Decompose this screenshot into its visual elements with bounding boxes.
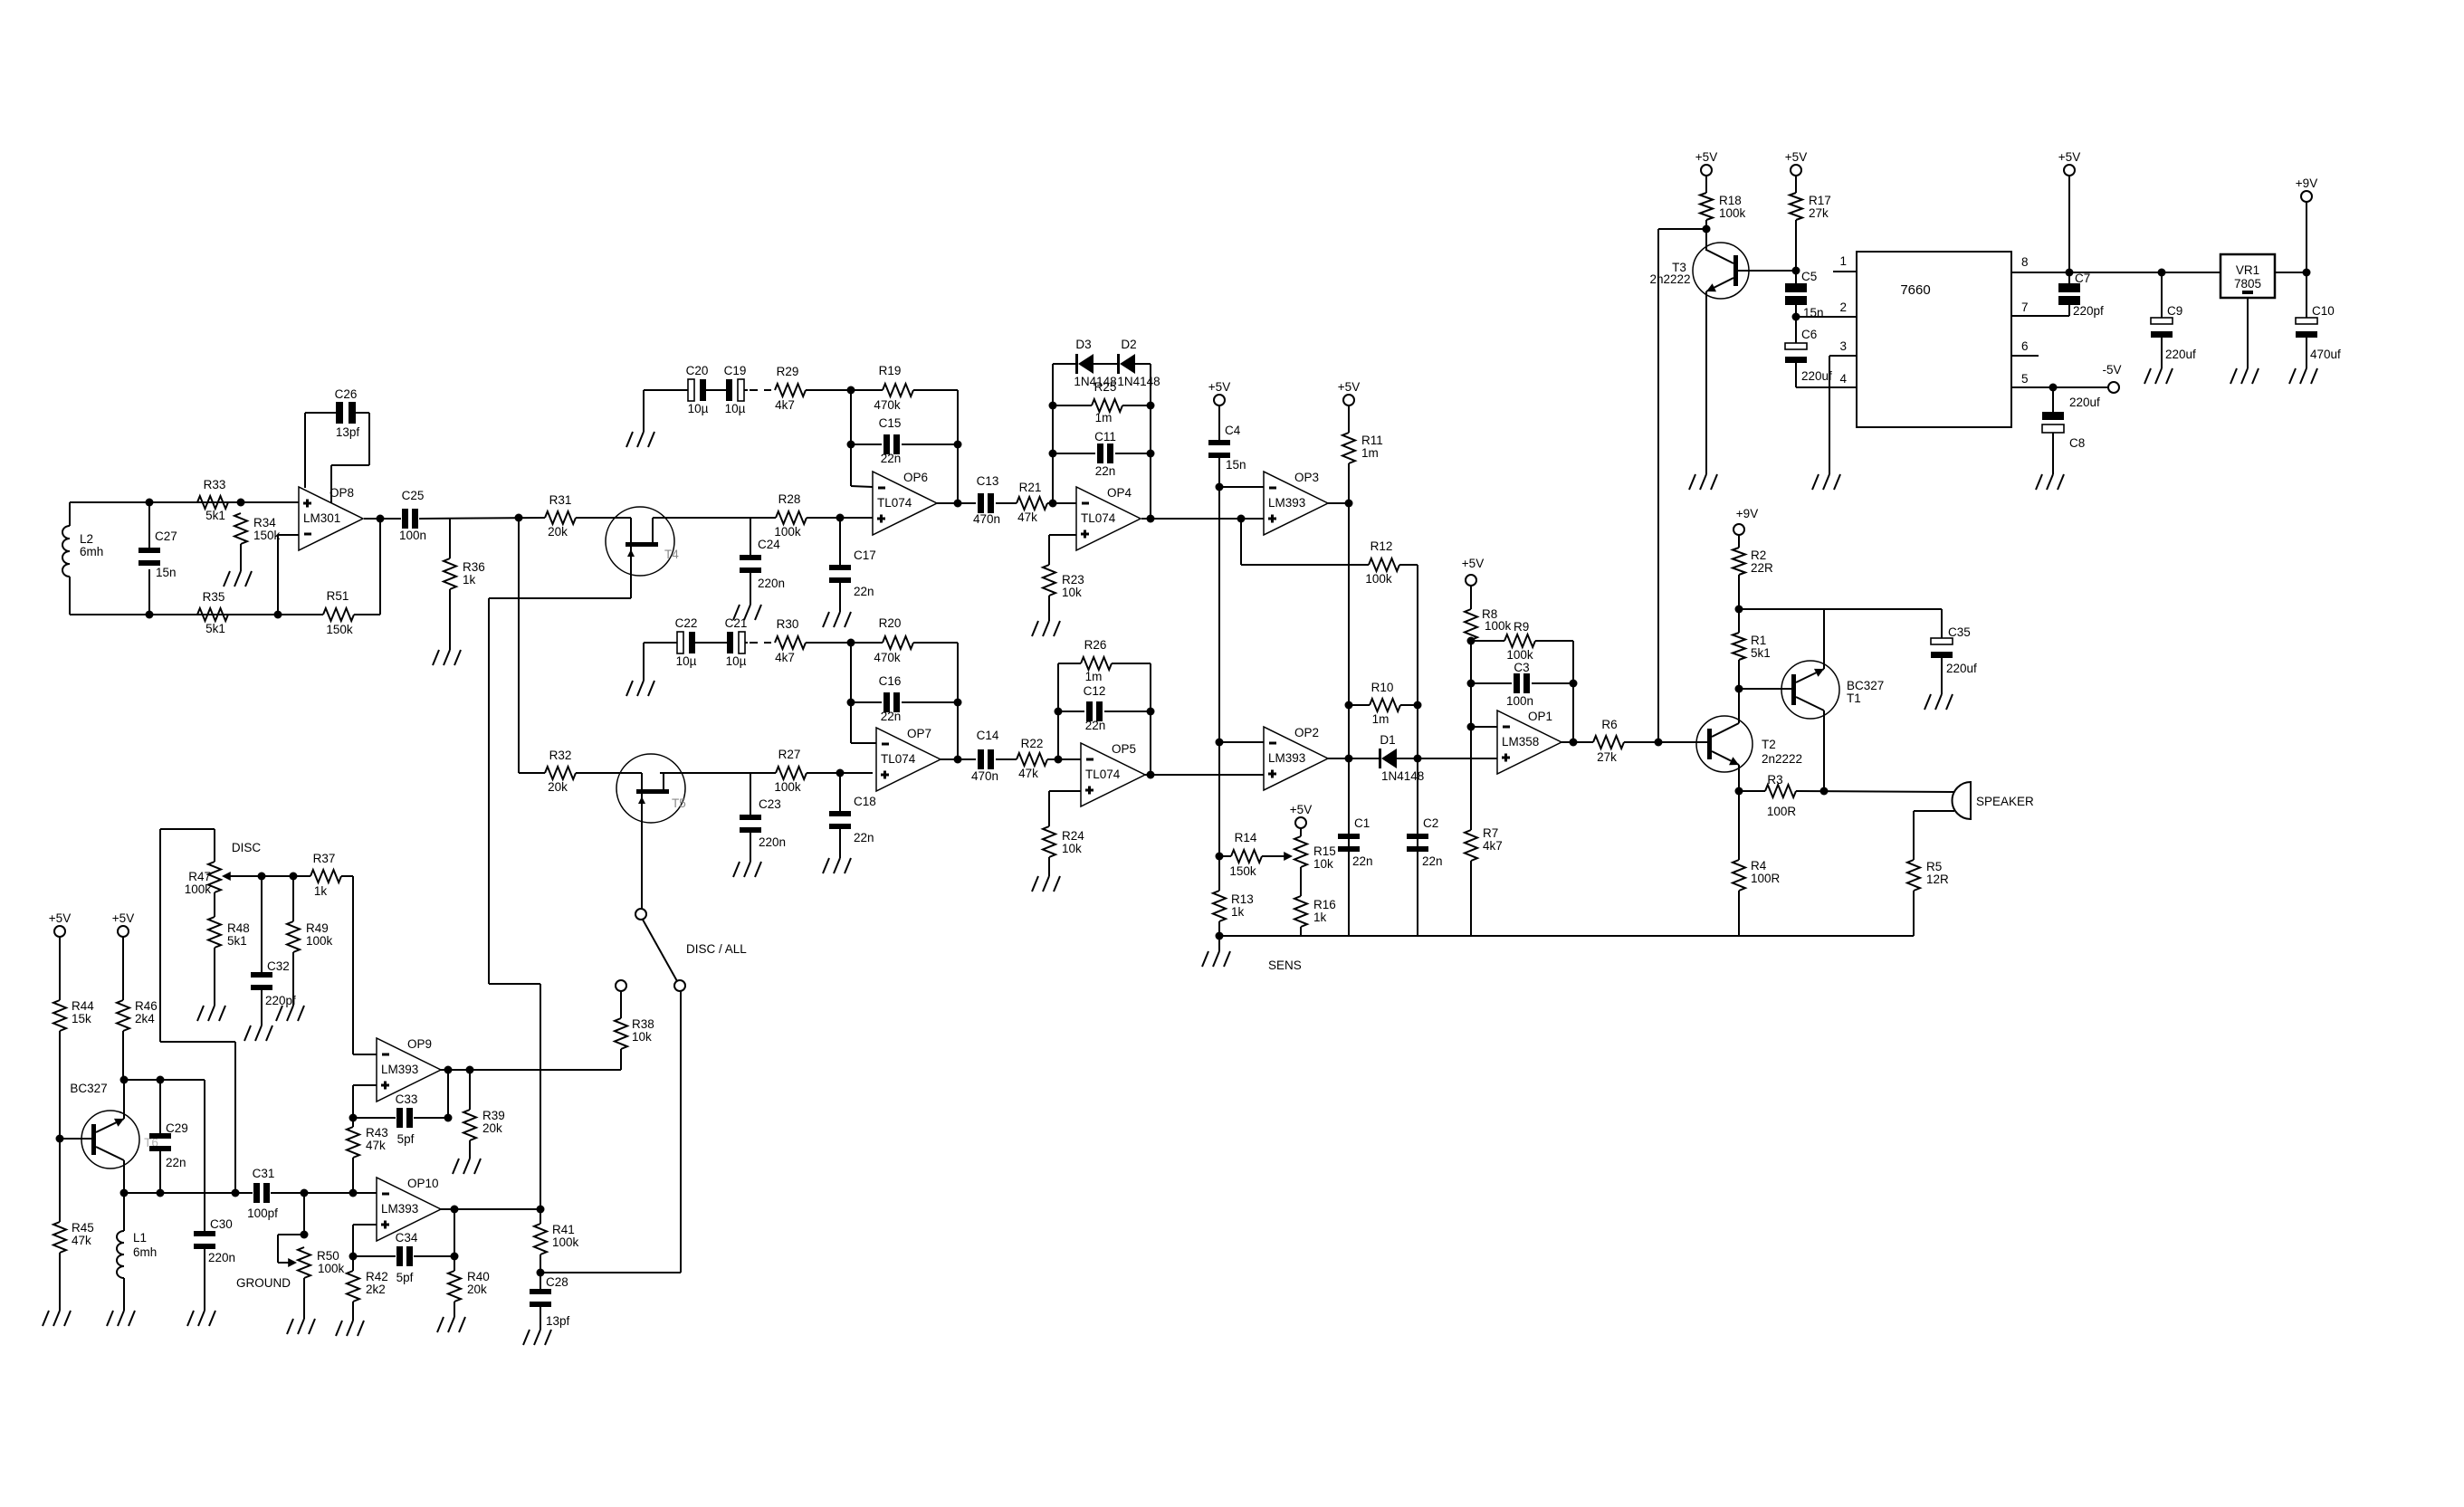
svg-text:C6: C6	[1801, 328, 1817, 341]
svg-text:C31: C31	[253, 1167, 275, 1180]
svg-text:4k7: 4k7	[1483, 839, 1503, 853]
svg-text:R17: R17	[1809, 194, 1831, 207]
svg-text:100k: 100k	[1365, 572, 1392, 586]
svg-text:1m: 1m	[1085, 670, 1103, 683]
svg-text:C14: C14	[977, 729, 999, 742]
svg-text:220n: 220n	[758, 577, 785, 590]
svg-text:R31: R31	[549, 493, 572, 507]
svg-text:+5V: +5V	[112, 911, 134, 925]
svg-text:2: 2	[1839, 300, 1847, 314]
svg-text:20k: 20k	[548, 780, 568, 794]
svg-text:R30: R30	[777, 617, 799, 631]
svg-text:100R: 100R	[1751, 872, 1781, 885]
svg-text:C22: C22	[675, 616, 698, 630]
svg-text:C28: C28	[546, 1275, 568, 1289]
svg-text:TL074: TL074	[881, 752, 916, 766]
svg-text:R40: R40	[467, 1270, 490, 1283]
svg-text:8: 8	[2021, 255, 2029, 269]
svg-text:C12: C12	[1084, 684, 1106, 698]
svg-text:6mh: 6mh	[133, 1245, 157, 1259]
svg-text:LM393: LM393	[1268, 751, 1305, 765]
svg-text:150k: 150k	[253, 529, 281, 542]
svg-text:150k: 150k	[326, 623, 353, 636]
svg-text:GROUND: GROUND	[236, 1276, 291, 1290]
svg-text:SPEAKER: SPEAKER	[1976, 795, 2034, 808]
svg-text:100pf: 100pf	[247, 1207, 278, 1220]
svg-text:+5V: +5V	[1290, 803, 1312, 816]
svg-text:1k: 1k	[1313, 911, 1327, 924]
svg-text:C10: C10	[2312, 304, 2335, 318]
svg-text:C8: C8	[2069, 436, 2085, 450]
svg-text:C20: C20	[686, 364, 709, 377]
svg-text:C2: C2	[1423, 816, 1438, 830]
svg-text:13pf: 13pf	[336, 425, 360, 439]
svg-text:100k: 100k	[774, 525, 801, 539]
svg-text:22n: 22n	[854, 585, 874, 598]
svg-text:220uf: 220uf	[1801, 369, 1832, 383]
svg-text:10µ: 10µ	[726, 654, 747, 668]
svg-text:47k: 47k	[1018, 767, 1038, 780]
svg-text:+5V: +5V	[2058, 150, 2080, 164]
svg-text:LM393: LM393	[1268, 496, 1305, 510]
svg-text:R34: R34	[253, 516, 276, 529]
svg-text:R39: R39	[482, 1109, 505, 1122]
svg-text:C1: C1	[1354, 816, 1370, 830]
svg-text:R37: R37	[313, 852, 336, 865]
svg-text:VR1: VR1	[2236, 263, 2259, 277]
svg-text:5: 5	[2021, 372, 2029, 386]
svg-text:5pf: 5pf	[397, 1132, 415, 1146]
svg-text:OP7: OP7	[907, 727, 931, 740]
svg-text:2n2222: 2n2222	[1649, 272, 1690, 286]
svg-text:L1: L1	[133, 1231, 147, 1245]
svg-text:+9V: +9V	[1736, 507, 1758, 520]
svg-text:+5V: +5V	[1208, 380, 1230, 394]
svg-text:20k: 20k	[482, 1121, 502, 1135]
svg-text:R44: R44	[72, 999, 94, 1013]
svg-text:220n: 220n	[208, 1251, 235, 1264]
svg-text:TL074: TL074	[1085, 768, 1121, 781]
svg-text:R36: R36	[463, 560, 485, 574]
svg-text:220uf: 220uf	[2165, 348, 2196, 361]
svg-text:100n: 100n	[1506, 694, 1533, 708]
svg-text:T4: T4	[664, 548, 679, 561]
svg-text:TL074: TL074	[877, 496, 912, 510]
svg-text:1m: 1m	[1095, 411, 1113, 424]
svg-text:10k: 10k	[1313, 857, 1333, 871]
svg-text:1m: 1m	[1372, 712, 1390, 726]
svg-text:1k: 1k	[463, 573, 476, 587]
svg-text:R38: R38	[632, 1017, 654, 1031]
svg-text:C3: C3	[1514, 661, 1529, 674]
svg-text:+5V: +5V	[1462, 557, 1484, 570]
svg-text:R21: R21	[1019, 481, 1042, 494]
svg-text:+5V: +5V	[1695, 150, 1717, 164]
svg-text:1N4148: 1N4148	[1381, 769, 1424, 783]
svg-text:R10: R10	[1371, 681, 1394, 694]
svg-text:R11: R11	[1361, 434, 1383, 447]
svg-text:R2: R2	[1751, 548, 1766, 562]
svg-text:4k7: 4k7	[775, 651, 795, 664]
svg-text:R3: R3	[1767, 773, 1782, 787]
svg-text:2k2: 2k2	[366, 1283, 386, 1296]
svg-text:C7: C7	[2075, 272, 2090, 285]
svg-text:LM301: LM301	[303, 511, 340, 525]
svg-text:C17: C17	[854, 548, 876, 562]
svg-text:10µ: 10µ	[676, 654, 697, 668]
svg-text:R22: R22	[1021, 737, 1044, 750]
svg-text:DISC / ALL: DISC / ALL	[686, 942, 747, 956]
svg-text:R24: R24	[1062, 829, 1084, 843]
svg-text:22n: 22n	[1085, 719, 1106, 732]
svg-text:R51: R51	[327, 589, 349, 603]
svg-text:100k: 100k	[552, 1235, 579, 1249]
svg-text:+5V: +5V	[1785, 150, 1807, 164]
svg-text:R43: R43	[366, 1126, 388, 1140]
svg-text:13pf: 13pf	[546, 1314, 570, 1328]
svg-text:R48: R48	[227, 921, 250, 935]
svg-text:R33: R33	[204, 478, 226, 491]
svg-text:R42: R42	[366, 1270, 388, 1283]
svg-text:220uf: 220uf	[2069, 396, 2100, 409]
svg-text:1k: 1k	[314, 884, 328, 898]
svg-text:C30: C30	[210, 1217, 233, 1231]
svg-text:C5: C5	[1801, 270, 1817, 283]
svg-text:R35: R35	[203, 590, 225, 604]
svg-text:R47: R47	[188, 870, 211, 883]
svg-text:2n2222: 2n2222	[1762, 752, 1802, 766]
svg-text:T5: T5	[672, 796, 686, 810]
svg-text:C16: C16	[879, 674, 902, 688]
svg-text:R7: R7	[1483, 826, 1498, 840]
svg-text:100R: 100R	[1767, 805, 1797, 818]
svg-text:4k7: 4k7	[775, 398, 795, 412]
svg-text:10µ: 10µ	[725, 402, 746, 415]
svg-text:7: 7	[2021, 300, 2029, 314]
svg-text:T1: T1	[1847, 692, 1861, 705]
svg-text:22n: 22n	[166, 1156, 186, 1169]
svg-text:C34: C34	[396, 1231, 418, 1245]
svg-text:C11: C11	[1094, 430, 1116, 444]
svg-text:BC327: BC327	[70, 1082, 107, 1095]
svg-text:DISC: DISC	[232, 841, 262, 854]
svg-text:100n: 100n	[399, 529, 426, 542]
svg-text:5k1: 5k1	[1751, 646, 1771, 660]
svg-text:R19: R19	[879, 364, 902, 377]
svg-text:R49: R49	[306, 921, 329, 935]
svg-text:R6: R6	[1601, 718, 1617, 731]
svg-text:10k: 10k	[632, 1030, 652, 1044]
svg-text:C25: C25	[402, 489, 425, 502]
svg-text:220pf: 220pf	[2073, 304, 2104, 318]
svg-text:R13: R13	[1231, 892, 1254, 906]
svg-text:OP8: OP8	[329, 486, 354, 500]
svg-text:R5: R5	[1926, 860, 1942, 873]
svg-text:2k4: 2k4	[135, 1012, 155, 1025]
svg-text:47k: 47k	[72, 1234, 91, 1247]
svg-text:D1: D1	[1380, 733, 1395, 747]
svg-text:OP10: OP10	[407, 1177, 439, 1190]
svg-text:BC327: BC327	[1847, 679, 1884, 692]
svg-text:L2: L2	[80, 532, 93, 546]
svg-text:15n: 15n	[1226, 458, 1246, 472]
svg-text:6mh: 6mh	[80, 545, 103, 558]
svg-text:7660: 7660	[1900, 282, 1930, 298]
svg-text:OP6: OP6	[903, 471, 928, 484]
svg-text:100k: 100k	[318, 1262, 345, 1275]
svg-text:22n: 22n	[1095, 464, 1116, 478]
svg-text:100k: 100k	[306, 934, 333, 948]
svg-text:R26: R26	[1084, 638, 1107, 652]
svg-text:R12: R12	[1370, 539, 1393, 553]
svg-text:220pf: 220pf	[265, 994, 296, 1007]
svg-text:OP1: OP1	[1528, 710, 1552, 723]
svg-text:R46: R46	[135, 999, 158, 1013]
svg-text:470n: 470n	[973, 512, 1000, 526]
svg-text:R1: R1	[1751, 634, 1766, 647]
svg-text:220n: 220n	[759, 835, 786, 849]
svg-text:SENS: SENS	[1268, 959, 1302, 972]
svg-text:5k1: 5k1	[227, 934, 247, 948]
svg-text:27k: 27k	[1597, 750, 1617, 764]
svg-text:20k: 20k	[467, 1283, 487, 1296]
svg-text:100k: 100k	[1719, 206, 1746, 220]
svg-text:LM393: LM393	[381, 1202, 418, 1216]
svg-text:1k: 1k	[1231, 905, 1245, 919]
svg-text:22n: 22n	[1352, 854, 1373, 868]
svg-text:R45: R45	[72, 1221, 94, 1235]
svg-text:100k: 100k	[774, 780, 801, 794]
svg-text:OP9: OP9	[407, 1037, 432, 1051]
svg-text:220uf: 220uf	[1946, 662, 1977, 675]
svg-text:7805: 7805	[2234, 277, 2261, 291]
svg-text:R28: R28	[778, 492, 801, 506]
svg-text:10k: 10k	[1062, 586, 1082, 599]
svg-text:R29: R29	[777, 365, 799, 378]
svg-text:10µ: 10µ	[688, 402, 709, 415]
svg-text:15k: 15k	[72, 1012, 91, 1025]
svg-text:C4: C4	[1225, 424, 1241, 437]
svg-text:22n: 22n	[881, 452, 902, 465]
svg-text:5k1: 5k1	[205, 622, 225, 635]
svg-text:5k1: 5k1	[205, 509, 225, 522]
svg-text:C32: C32	[267, 959, 290, 973]
svg-text:22n: 22n	[854, 831, 874, 844]
svg-text:LM393: LM393	[381, 1063, 418, 1076]
svg-text:R18: R18	[1719, 194, 1742, 207]
svg-text:5pf: 5pf	[396, 1271, 414, 1284]
svg-text:OP4: OP4	[1107, 486, 1132, 500]
svg-text:1m: 1m	[1361, 446, 1379, 460]
svg-text:C35: C35	[1948, 625, 1971, 639]
svg-text:22n: 22n	[1422, 854, 1443, 868]
svg-text:R9: R9	[1514, 620, 1529, 634]
svg-text:R32: R32	[549, 749, 572, 762]
svg-text:22R: 22R	[1751, 561, 1773, 575]
svg-text:OP2: OP2	[1294, 726, 1319, 739]
svg-text:C23: C23	[759, 797, 781, 811]
svg-text:1: 1	[1839, 254, 1847, 268]
svg-text:R16: R16	[1313, 898, 1336, 911]
svg-text:47k: 47k	[366, 1139, 386, 1152]
svg-text:100k: 100k	[1506, 648, 1533, 662]
svg-text:12R: 12R	[1926, 873, 1949, 886]
svg-text:+5V: +5V	[49, 911, 71, 925]
svg-text:3: 3	[1839, 339, 1847, 353]
svg-text:47k: 47k	[1017, 510, 1037, 524]
svg-text:22n: 22n	[881, 710, 902, 723]
svg-text:R25: R25	[1094, 380, 1117, 394]
svg-text:15n: 15n	[156, 566, 177, 579]
svg-text:R20: R20	[879, 616, 902, 630]
svg-text:C26: C26	[335, 387, 358, 401]
svg-text:R23: R23	[1062, 573, 1084, 587]
svg-text:470k: 470k	[874, 651, 901, 664]
svg-text:C21: C21	[725, 616, 748, 630]
svg-text:+5V: +5V	[1338, 380, 1360, 394]
svg-text:C19: C19	[724, 364, 747, 377]
svg-text:C33: C33	[396, 1092, 418, 1106]
svg-text:100k: 100k	[1485, 619, 1512, 633]
svg-text:D3: D3	[1075, 338, 1091, 351]
svg-text:R15: R15	[1313, 844, 1336, 858]
svg-text:1N4148: 1N4148	[1117, 375, 1160, 388]
svg-text:470k: 470k	[874, 398, 901, 412]
svg-text:100k: 100k	[185, 882, 212, 896]
svg-text:-5V: -5V	[2102, 363, 2121, 377]
svg-text:20k: 20k	[548, 525, 568, 539]
svg-text:+9V: +9V	[2296, 176, 2317, 190]
svg-text:C9: C9	[2167, 304, 2182, 318]
svg-text:C15: C15	[879, 416, 902, 430]
svg-text:150k: 150k	[1229, 864, 1256, 878]
svg-text:LM358: LM358	[1502, 735, 1539, 749]
svg-text:OP3: OP3	[1294, 471, 1319, 484]
svg-text:D2: D2	[1121, 338, 1136, 351]
svg-text:10k: 10k	[1062, 842, 1082, 855]
svg-text:R27: R27	[778, 748, 801, 761]
svg-text:C29: C29	[166, 1121, 188, 1135]
svg-text:OP5: OP5	[1112, 742, 1136, 756]
svg-text:C24: C24	[758, 538, 780, 551]
svg-text:470n: 470n	[971, 769, 998, 783]
svg-text:6: 6	[2021, 339, 2029, 353]
svg-text:R4: R4	[1751, 859, 1767, 873]
svg-text:C13: C13	[977, 474, 999, 488]
svg-text:C27: C27	[155, 529, 177, 543]
svg-text:C18: C18	[854, 795, 876, 808]
svg-text:R50: R50	[317, 1249, 339, 1263]
svg-text:4: 4	[1839, 372, 1847, 386]
svg-text:R14: R14	[1235, 831, 1257, 844]
svg-text:TL074: TL074	[1081, 511, 1116, 525]
svg-text:470uf: 470uf	[2310, 348, 2341, 361]
svg-text:27k: 27k	[1809, 206, 1829, 220]
svg-text:R41: R41	[552, 1223, 575, 1236]
svg-text:T2: T2	[1762, 738, 1776, 751]
